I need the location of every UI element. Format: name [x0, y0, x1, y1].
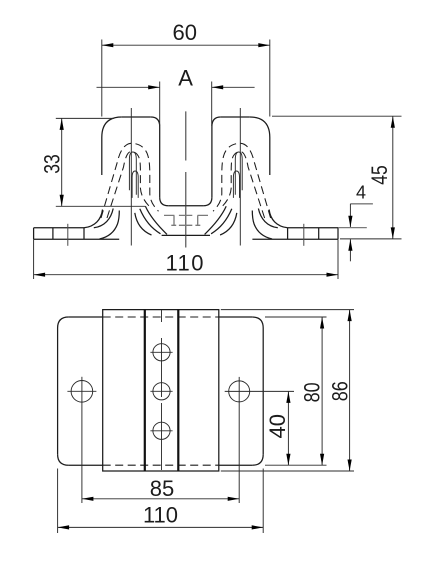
svg-text:80: 80	[300, 382, 325, 402]
channel wall	[159, 127, 161, 198]
svg-text:85: 85	[150, 476, 174, 501]
dim 86 line	[349, 310, 351, 471]
dim 85 line	[82, 498, 239, 500]
plate line left (33-dim lower extension + plate edge)	[56, 205, 146, 207]
dim 45 bottom extension	[340, 238, 402, 240]
under-channel arc B	[140, 209, 161, 234]
dim 33 line	[61, 118, 63, 206]
foot divider 1	[52, 228, 54, 239]
right half = mirror of left	[186, 108, 338, 246]
strip centerline	[161, 310, 163, 470]
dim 110 line	[34, 274, 338, 276]
upper body band rect	[103, 310, 219, 471]
dashed rubber arch inner	[107, 152, 150, 219]
rubber fillet curve 1	[84, 210, 103, 228]
svg-text:86: 86	[328, 381, 353, 401]
foot divider 2 / bend line	[83, 228, 85, 239]
dim 4 leader bar	[350, 203, 373, 205]
dim 4 lower arrow line	[349, 239, 351, 261]
dim 80 line	[321, 317, 323, 465]
channel bottom corner	[160, 197, 169, 206]
dim 80 extensions	[265, 317, 327, 465]
dim 45 line	[392, 116, 394, 239]
flange top extension (gray)	[338, 227, 367, 229]
svg-text:45: 45	[367, 165, 392, 185]
strip circle 3	[153, 422, 170, 439]
under-channel arc A	[145, 206, 167, 234]
foot bottom edge	[34, 238, 120, 240]
dashed rubber arch outer	[101, 143, 159, 218]
dim 60 line	[102, 44, 270, 46]
svg-text:110: 110	[166, 251, 204, 276]
plate hidden edges under band	[103, 316, 219, 318]
bottom center line (half)	[162, 234, 186, 236]
svg-text:110: 110	[143, 502, 178, 527]
foot hole centerline tick	[67, 224, 69, 246]
dim 40 line	[287, 391, 289, 465]
strip circle 1	[153, 344, 170, 361]
foot left cap	[33, 228, 35, 239]
dim A extension lines	[160, 82, 212, 127]
dim 110 extensions	[58, 469, 264, 534]
left hole	[71, 381, 93, 403]
dim A line with outside arrows	[97, 86, 255, 88]
hidden slot bracket: top dashed line	[164, 214, 208, 216]
hidden slot bracket: bottom dashes and ticks	[171, 224, 200, 226]
center strip thick verticals	[145, 310, 179, 471]
dim 86 extensions	[221, 310, 354, 471]
svg-text:40: 40	[265, 414, 290, 438]
hidden slot bracket: left vertical	[173, 215, 175, 225]
foot top edge	[34, 227, 84, 229]
hump top flat	[122, 116, 151, 118]
rubber fillet curve 2	[94, 209, 113, 228]
dim 110 extensions	[34, 239, 338, 279]
rubber fillet curve 3	[100, 211, 120, 240]
finger arch A	[129, 152, 136, 195]
main vertical centerline	[185, 111, 187, 247]
hump bolt centerline	[130, 108, 132, 246]
hump outer wall	[101, 138, 103, 176]
hump small corner to channel	[151, 117, 160, 127]
strip circle 2	[153, 383, 170, 400]
hidden slot bracket: right vertical	[197, 215, 199, 225]
svg-text:33: 33	[39, 154, 64, 174]
dim 33 top extension	[56, 117, 114, 119]
dim 60 extension lines	[102, 40, 270, 117]
svg-text:A: A	[178, 66, 193, 91]
dim 110 line	[58, 526, 264, 528]
svg-text:60: 60	[173, 20, 197, 45]
finger arch B	[132, 171, 138, 198]
svg-text:4: 4	[356, 183, 366, 203]
channel floor (half)	[168, 205, 186, 207]
hump big outer corner	[102, 117, 122, 138]
left half solid outline	[34, 108, 186, 246]
dim 45 top extension	[272, 115, 402, 117]
dim 4 upper arrow line	[349, 204, 351, 227]
right hole	[229, 381, 250, 402]
under-channel arc C	[135, 213, 152, 235]
base plate rounded rect: solid parts	[69, 316, 253, 318]
